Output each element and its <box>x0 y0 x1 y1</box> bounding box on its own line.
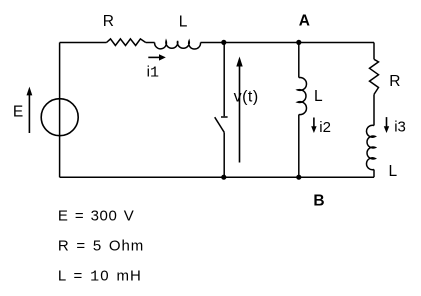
svg-text:L: L <box>389 163 398 180</box>
resistor R (top horizontal) <box>107 39 146 46</box>
svg-text:L = 10 mH: L = 10 mH <box>58 268 142 286</box>
svg-text:B: B <box>313 192 324 209</box>
svg-text:L: L <box>314 88 323 105</box>
switch contact bar <box>221 116 228 118</box>
wire switch branch upper <box>223 43 225 117</box>
svg-text:i1: i1 <box>147 64 159 82</box>
wire top-right segment <box>201 42 375 44</box>
svg-text:A: A <box>299 12 310 29</box>
arrow i1 <box>148 56 159 58</box>
svg-text:v(t): v(t) <box>234 88 259 105</box>
arrow i2 <box>313 118 315 128</box>
wire middle branch upper <box>298 43 300 78</box>
node A dot <box>296 40 301 45</box>
svg-text:E = 300 V: E = 300 V <box>58 207 134 224</box>
inductor L (right branch, 4 bumps left) <box>367 125 376 169</box>
switch blade <box>215 117 225 132</box>
arrow v(t) <box>239 65 241 163</box>
wire left side (through source) <box>59 43 61 178</box>
resistor R (right vertical) <box>370 59 379 94</box>
arrow i3 <box>386 117 388 127</box>
arrow E (source polarity) <box>28 95 30 133</box>
wire right branch lower <box>373 170 375 178</box>
node dot bottom at switch <box>221 175 226 180</box>
voltage source E circle <box>41 99 78 136</box>
wire bottom <box>60 176 374 178</box>
wire switch branch lower <box>223 132 225 177</box>
svg-text:i3: i3 <box>394 118 406 135</box>
svg-text:R = 5 Ohm: R = 5 Ohm <box>58 238 144 255</box>
wire between R and L (top) <box>146 42 155 44</box>
inductor L (top horizontal, 4 bumps down) <box>155 41 201 49</box>
svg-text:i2: i2 <box>319 119 331 136</box>
node B dot <box>296 175 301 180</box>
svg-text:L: L <box>179 13 188 30</box>
node dot top at switch <box>221 40 226 45</box>
svg-text:R: R <box>389 73 400 90</box>
wire middle branch lower <box>298 115 300 178</box>
wire right branch middle <box>373 94 375 125</box>
svg-text:E: E <box>13 103 23 120</box>
inductor L (middle branch, 3 bumps right) <box>298 77 307 114</box>
wire top-left segment <box>60 42 107 44</box>
wire right branch upper <box>373 43 375 60</box>
svg-text:R: R <box>103 13 114 30</box>
